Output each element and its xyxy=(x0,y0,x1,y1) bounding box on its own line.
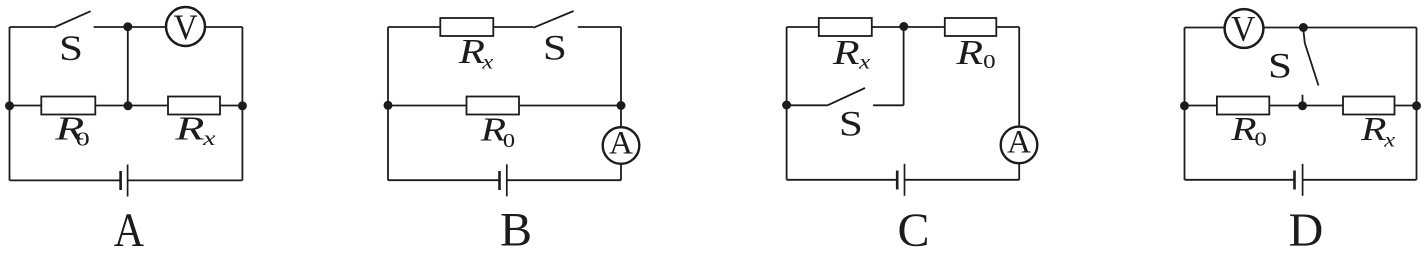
battery BT2 (circuit B) long plate xyxy=(506,164,508,196)
wire A right vertical xyxy=(241,27,243,180)
svg-text:A: A xyxy=(114,203,145,253)
battery BT3 (circuit C) long plate xyxy=(904,164,906,196)
svg-text:A: A xyxy=(1007,125,1031,161)
resistor R0 (circuit D) xyxy=(1217,97,1269,115)
node D top junction xyxy=(1299,23,1308,32)
resistor Rx (circuit D) xyxy=(1343,97,1395,115)
wire A left vertical xyxy=(9,27,11,180)
wire D middle left segment xyxy=(1185,105,1217,107)
node D middle-center junction xyxy=(1298,101,1307,110)
battery BT3 (circuit C) short plate xyxy=(896,171,899,190)
wire D bottom left segment xyxy=(1185,179,1295,181)
svg-text:R: R xyxy=(832,33,860,72)
ammeter U3 A (circuit C) xyxy=(1001,125,1038,163)
wire C right vertical upper xyxy=(1018,27,1020,127)
resistor Rx (circuit C) xyxy=(819,18,872,36)
node A middle-center junction xyxy=(124,101,133,110)
wire C top-left segment xyxy=(787,26,819,28)
svg-text:0: 0 xyxy=(503,129,515,151)
wire B middle right segment xyxy=(519,105,621,107)
wire D middle right segment xyxy=(1395,105,1417,107)
wire A top-left segment to switch xyxy=(10,26,54,28)
wire B middle left segment xyxy=(388,105,467,107)
resistor Rx (circuit A) xyxy=(168,97,220,115)
wire A bottom right segment xyxy=(128,179,243,181)
voltmeter U4 V (circuit D) xyxy=(1225,8,1264,48)
wire C left vertical xyxy=(786,27,788,180)
svg-text:B: B xyxy=(500,204,532,253)
svg-text:S: S xyxy=(59,29,83,69)
wire C right vertical lower xyxy=(1018,163,1020,180)
node B middle-left junction xyxy=(384,101,393,110)
wire D middle center segment xyxy=(1269,105,1343,107)
wire C top middle segment xyxy=(872,26,945,28)
svg-text:0: 0 xyxy=(1254,128,1266,150)
label Rx (circuit D) xyxy=(1360,111,1395,151)
wire A bottom left segment xyxy=(10,179,121,181)
node A middle-right junction xyxy=(238,101,247,110)
wire B top-left segment xyxy=(388,26,440,28)
svg-text:R: R xyxy=(1360,111,1386,149)
label R0 (circuit D) xyxy=(1230,111,1266,151)
svg-text:R: R xyxy=(174,109,204,147)
wire A middle left segment xyxy=(10,105,42,107)
wire C top right segment xyxy=(996,26,1019,28)
battery BT4 (circuit D) short plate xyxy=(1293,171,1296,190)
node D middle-left junction xyxy=(1180,101,1189,110)
wire B right vertical upper xyxy=(620,27,622,127)
wire C middle right segment xyxy=(873,104,904,106)
svg-text:0: 0 xyxy=(983,50,995,72)
wire D right vertical xyxy=(1416,28,1418,180)
label R0 (circuit C) xyxy=(955,33,995,72)
wire D left vertical xyxy=(1184,28,1186,180)
wire C bottom right segment xyxy=(905,179,1020,181)
wire D top-left segment xyxy=(1185,27,1225,29)
svg-text:C: C xyxy=(897,204,929,253)
resistor R0 (circuit B) xyxy=(467,97,520,115)
resistor R0 (circuit A) xyxy=(41,97,95,115)
node B middle-right junction xyxy=(617,101,626,110)
wire B top right segment xyxy=(578,26,621,28)
node A top junction xyxy=(123,22,132,31)
battery BT1 (circuit A) long plate xyxy=(127,165,129,197)
label Rx (circuit B) xyxy=(458,32,494,72)
svg-text:R: R xyxy=(1230,111,1256,149)
svg-text:R: R xyxy=(955,33,983,72)
node A middle-left junction xyxy=(5,101,14,110)
resistor R0 (circuit C) xyxy=(945,18,997,36)
wire C bottom left segment xyxy=(787,179,898,181)
wire D top right segment xyxy=(1264,27,1417,29)
battery BT1 (circuit A) short plate xyxy=(119,171,122,190)
switch S (circuit A) lever xyxy=(54,11,91,27)
wire B left vertical xyxy=(387,27,389,180)
wire A top right segment xyxy=(205,26,242,28)
svg-text:S: S xyxy=(543,28,567,68)
wire A center vertical connector xyxy=(127,27,129,106)
svg-text:S: S xyxy=(1268,46,1292,86)
node D middle-right junction xyxy=(1412,101,1421,110)
ammeter U2 A (circuit B) xyxy=(603,125,640,163)
wire B top middle segment xyxy=(493,26,533,28)
wire D bottom right segment xyxy=(1303,179,1417,181)
switch S (circuit C) lever xyxy=(828,88,865,105)
wire C middle left segment xyxy=(787,104,828,106)
wire B right vertical lower xyxy=(620,164,622,181)
svg-text:V: V xyxy=(174,7,198,47)
svg-text:0: 0 xyxy=(76,128,90,150)
wire D switch lower stub xyxy=(1302,95,1304,106)
node C middle-left junction xyxy=(782,101,791,110)
wire A top middle segment xyxy=(94,26,166,28)
svg-text:V: V xyxy=(1231,8,1255,48)
svg-text:x: x xyxy=(1383,129,1395,151)
svg-text:A: A xyxy=(609,125,633,161)
svg-text:x: x xyxy=(858,51,870,73)
wire C switch-to-node vertical xyxy=(903,27,905,105)
wire B bottom right segment xyxy=(507,179,621,181)
svg-text:R: R xyxy=(458,32,485,71)
label R0 (circuit A) xyxy=(54,109,90,150)
svg-text:x: x xyxy=(481,50,493,72)
label Rx (circuit C) xyxy=(832,33,870,73)
label R0 (circuit B) xyxy=(480,111,515,152)
switch S (circuit B) lever xyxy=(534,11,574,28)
svg-text:S: S xyxy=(839,104,863,144)
switch S (circuit D) lever xyxy=(1303,30,1318,86)
resistor Rx (circuit B) xyxy=(440,18,493,36)
voltmeter U1 V (circuit A) xyxy=(166,7,205,47)
node C top junction xyxy=(899,22,908,31)
label Rx (circuit A) xyxy=(174,109,216,150)
battery BT2 (circuit B) short plate xyxy=(498,171,501,190)
wire A middle right segment xyxy=(220,105,242,107)
svg-text:x: x xyxy=(202,128,216,150)
battery BT4 (circuit D) long plate xyxy=(1302,164,1304,196)
wire A middle center segment xyxy=(95,105,168,107)
svg-text:D: D xyxy=(1289,204,1324,253)
wire B bottom left segment xyxy=(388,179,500,181)
